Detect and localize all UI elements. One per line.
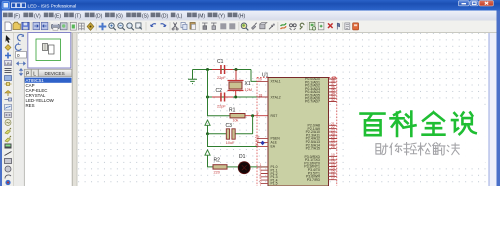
icon view log xyxy=(345,23,350,30)
DEVICES header xyxy=(39,69,72,76)
icon print marker xyxy=(60,23,67,30)
sep xyxy=(68,22,70,31)
svg-text:P2.7/A15: P2.7/A15 xyxy=(306,147,320,151)
icon zoom in xyxy=(109,23,114,28)
tool bus xyxy=(5,69,12,73)
svg-text:X1: X1 xyxy=(245,81,251,87)
menu 源代码(S) xyxy=(126,13,131,18)
icon decompose xyxy=(269,25,273,29)
icon new xyxy=(5,22,11,31)
icon goto sheet xyxy=(337,23,339,30)
svg-text:AT89C51: AT89C51 xyxy=(26,78,45,83)
title text: 闪烁的LED - ISIS Professional xyxy=(12,3,16,8)
svg-text:RST: RST xyxy=(271,114,278,118)
svg-text:(M): (M) xyxy=(198,13,206,19)
menu bar xyxy=(0,11,500,21)
svg-text:D1: D1 xyxy=(239,154,246,160)
icon zoom area xyxy=(136,23,141,28)
tool component xyxy=(5,83,12,86)
window border right xyxy=(497,11,500,187)
svg-text:R2: R2 xyxy=(214,157,221,163)
icon zoom all xyxy=(127,23,132,28)
icon open xyxy=(13,22,20,29)
icon export xyxy=(41,22,48,29)
icon redo xyxy=(161,24,167,27)
menu 系统(Y) xyxy=(208,13,213,18)
icon paste xyxy=(190,23,195,30)
svg-text:RES: RES xyxy=(26,103,35,108)
icon block delete xyxy=(229,23,235,29)
svg-text:(H): (H) xyxy=(238,13,245,19)
icon search tag xyxy=(290,24,293,27)
menu 帮助(H) xyxy=(228,13,233,18)
glyph 解 xyxy=(433,143,445,155)
svg-text:(T): (T) xyxy=(75,13,82,19)
icon block copy xyxy=(202,23,208,29)
right scrollbar strip xyxy=(489,33,497,186)
svg-text:(L): (L) xyxy=(176,13,182,19)
icon packaging xyxy=(260,24,265,29)
icon cut xyxy=(174,23,177,29)
sep xyxy=(169,22,171,31)
window border left xyxy=(0,11,2,187)
sep xyxy=(30,22,32,31)
glyph 助 xyxy=(376,144,388,155)
menu 设计(D) xyxy=(85,13,90,18)
tool subcircuit xyxy=(5,76,12,81)
icon pan xyxy=(99,23,107,31)
tool graph xyxy=(5,105,12,111)
svg-text:(Y): (Y) xyxy=(218,13,225,19)
icon block rotate xyxy=(220,23,226,29)
sep xyxy=(145,22,147,31)
sep xyxy=(198,22,200,31)
device item AT89C51 selected xyxy=(25,78,72,83)
tool 2d line xyxy=(5,152,12,156)
icon design explorer xyxy=(309,22,315,29)
menu 调试(D) xyxy=(151,13,156,18)
title bar xyxy=(0,0,500,11)
tool 2d text xyxy=(5,180,10,185)
node power C3 xyxy=(206,132,209,135)
wire bottom rail XTAL2 xyxy=(208,96,258,98)
menu 文件(F) xyxy=(3,13,8,18)
svg-text:19: 19 xyxy=(258,78,262,82)
menu 工具(T) xyxy=(64,13,69,18)
menu 模板(M) xyxy=(187,13,192,18)
preview sheet outline xyxy=(36,39,61,61)
icon grid xyxy=(78,23,84,30)
svg-text:(G): (G) xyxy=(116,13,124,19)
svg-text:28: 28 xyxy=(331,145,335,149)
tool power terminal xyxy=(5,91,11,94)
icon remove sheet xyxy=(328,23,333,28)
left mode toolbar xyxy=(2,33,14,186)
L button xyxy=(31,69,38,76)
svg-text:220: 220 xyxy=(214,171,220,175)
svg-text:(S): (S) xyxy=(142,13,149,19)
svg-text:P1.5: P1.5 xyxy=(271,182,278,186)
toolbar xyxy=(0,21,500,33)
power +5V arrow lower xyxy=(205,150,210,155)
rotate ccw button xyxy=(15,44,21,50)
device list box xyxy=(24,77,72,186)
app icon xyxy=(2,2,10,10)
preview panel xyxy=(28,33,71,69)
wire RST to C3 xyxy=(252,116,254,134)
chip right pin stubs xyxy=(329,79,337,180)
tool selection arrow xyxy=(6,35,11,43)
wire XTAL1 drop xyxy=(251,70,257,82)
menu 编辑(E) xyxy=(44,13,49,18)
svg-text:10uF: 10uF xyxy=(226,141,235,145)
svg-text:(E): (E) xyxy=(54,13,61,19)
icon exit orange xyxy=(353,23,359,30)
ALE blue mark xyxy=(260,141,264,146)
icon zoom out xyxy=(118,23,123,28)
menu 绘图(G) xyxy=(105,13,110,18)
rotate angle field xyxy=(16,52,27,59)
tool 2d circle xyxy=(5,166,11,172)
wire ground rail vertical xyxy=(208,70,231,116)
icon save xyxy=(22,22,29,29)
sep xyxy=(238,22,240,31)
svg-text:C1: C1 xyxy=(217,59,224,65)
svg-text:(D): (D) xyxy=(161,13,168,19)
svg-text:32: 32 xyxy=(331,98,335,102)
svg-text:LBL: LBL xyxy=(5,62,11,66)
icon property assign xyxy=(300,23,304,29)
svg-text:9: 9 xyxy=(257,112,259,116)
mirror horizontal button xyxy=(17,62,26,65)
tool voltage probe xyxy=(5,130,11,134)
chip left pin stubs xyxy=(257,81,268,183)
svg-text:17: 17 xyxy=(331,176,335,180)
window buttons xyxy=(458,1,469,6)
svg-text:XTAL2: XTAL2 xyxy=(271,95,281,99)
svg-text:12M: 12M xyxy=(245,88,252,92)
svg-text:31: 31 xyxy=(255,143,259,147)
glyph 科 xyxy=(391,112,416,136)
pin numbers P1 left xyxy=(260,163,262,187)
power +5V arrow upper xyxy=(205,120,210,125)
node C2 left xyxy=(206,96,209,99)
mirror vertical button xyxy=(19,69,22,76)
sep xyxy=(342,22,344,31)
icon redraw xyxy=(70,22,76,30)
op U1 selection box dashed xyxy=(257,78,337,187)
chip right pin names P3 xyxy=(304,155,320,182)
glyph 百 xyxy=(361,114,385,136)
sep xyxy=(49,22,51,31)
preview part drawing xyxy=(43,44,48,51)
icon new sheet xyxy=(318,22,324,29)
tool 2d arc xyxy=(5,175,11,179)
svg-text:L: L xyxy=(33,71,36,77)
icon make device xyxy=(252,25,256,29)
glyph 决 xyxy=(447,143,459,154)
svg-text:(F): (F) xyxy=(14,13,21,19)
tool wire label xyxy=(5,53,11,59)
chip right pin names P0 xyxy=(305,77,320,104)
rotate cw button xyxy=(18,34,24,40)
icon pick device xyxy=(241,23,247,29)
svg-text:22pF: 22pF xyxy=(217,105,226,109)
icon block move xyxy=(211,23,217,26)
svg-text:7: 7 xyxy=(260,183,262,186)
svg-text:(D): (D) xyxy=(95,13,102,19)
svg-text:10k: 10k xyxy=(233,119,239,123)
svg-text:LED - ISIS Professional: LED - ISIS Professional xyxy=(28,4,77,10)
svg-text:XTAL1: XTAL1 xyxy=(271,80,281,84)
icon import xyxy=(33,22,40,29)
svg-text:R1: R1 xyxy=(229,107,236,113)
watermark panel xyxy=(345,104,487,167)
wire top rail xyxy=(193,69,252,71)
chip left pin names xyxy=(271,80,281,186)
wire D1 to P1.0 xyxy=(250,166,268,168)
svg-text:22pF: 22pF xyxy=(217,76,226,80)
svg-text:18: 18 xyxy=(259,93,263,97)
tool virtual instruments xyxy=(5,144,12,149)
wire R2 to D1 xyxy=(227,166,238,168)
node crystal top xyxy=(235,68,238,71)
panel divider xyxy=(72,33,78,186)
icon origin xyxy=(87,23,94,31)
svg-text:EA: EA xyxy=(271,145,276,149)
glyph 轻 xyxy=(404,143,417,155)
glyph 说 xyxy=(452,113,476,135)
node C1 left xyxy=(206,68,209,71)
glyph 全 xyxy=(423,112,445,134)
svg-text:(V): (V) xyxy=(34,13,41,19)
tool tape recorder xyxy=(5,113,12,118)
icon autorouter xyxy=(281,26,287,29)
chip right pin names P2 xyxy=(306,124,320,151)
tool junction dot xyxy=(5,45,11,51)
tool pin xyxy=(5,98,12,101)
icon undo xyxy=(151,24,157,27)
svg-text:DEVICES: DEVICES xyxy=(45,71,65,76)
crystal X1 xyxy=(235,70,237,98)
sep xyxy=(277,22,279,31)
schematic canvas with dot grid xyxy=(78,33,489,186)
sep xyxy=(306,22,308,31)
node crystal bottom xyxy=(234,96,237,99)
glyph 你 xyxy=(390,143,402,154)
chip right pin numbers xyxy=(331,76,336,181)
rotate controls panel xyxy=(14,33,28,186)
icon copy xyxy=(181,23,185,28)
menu 查看(V) xyxy=(23,13,28,18)
tool text script xyxy=(5,61,12,66)
svg-text:P3.7/RD: P3.7/RD xyxy=(307,178,321,182)
tool generator xyxy=(5,120,11,126)
node RST xyxy=(251,114,254,117)
svg-text:0: 0 xyxy=(17,53,20,58)
icon print xyxy=(52,24,60,28)
svg-text:C3: C3 xyxy=(226,123,233,129)
sep xyxy=(95,22,97,31)
P button xyxy=(24,69,31,76)
glyph 松 xyxy=(418,143,431,155)
svg-text:P0.7/AD7: P0.7/AD7 xyxy=(305,100,320,104)
tool current probe xyxy=(5,138,11,142)
menu 库(L) xyxy=(171,13,176,18)
ground xyxy=(188,70,197,84)
wire R1 to RST xyxy=(245,115,268,117)
window background xyxy=(0,0,500,186)
toolbar icons xyxy=(5,22,359,31)
wire EA to power xyxy=(208,134,258,147)
tool 2d box xyxy=(5,159,12,164)
